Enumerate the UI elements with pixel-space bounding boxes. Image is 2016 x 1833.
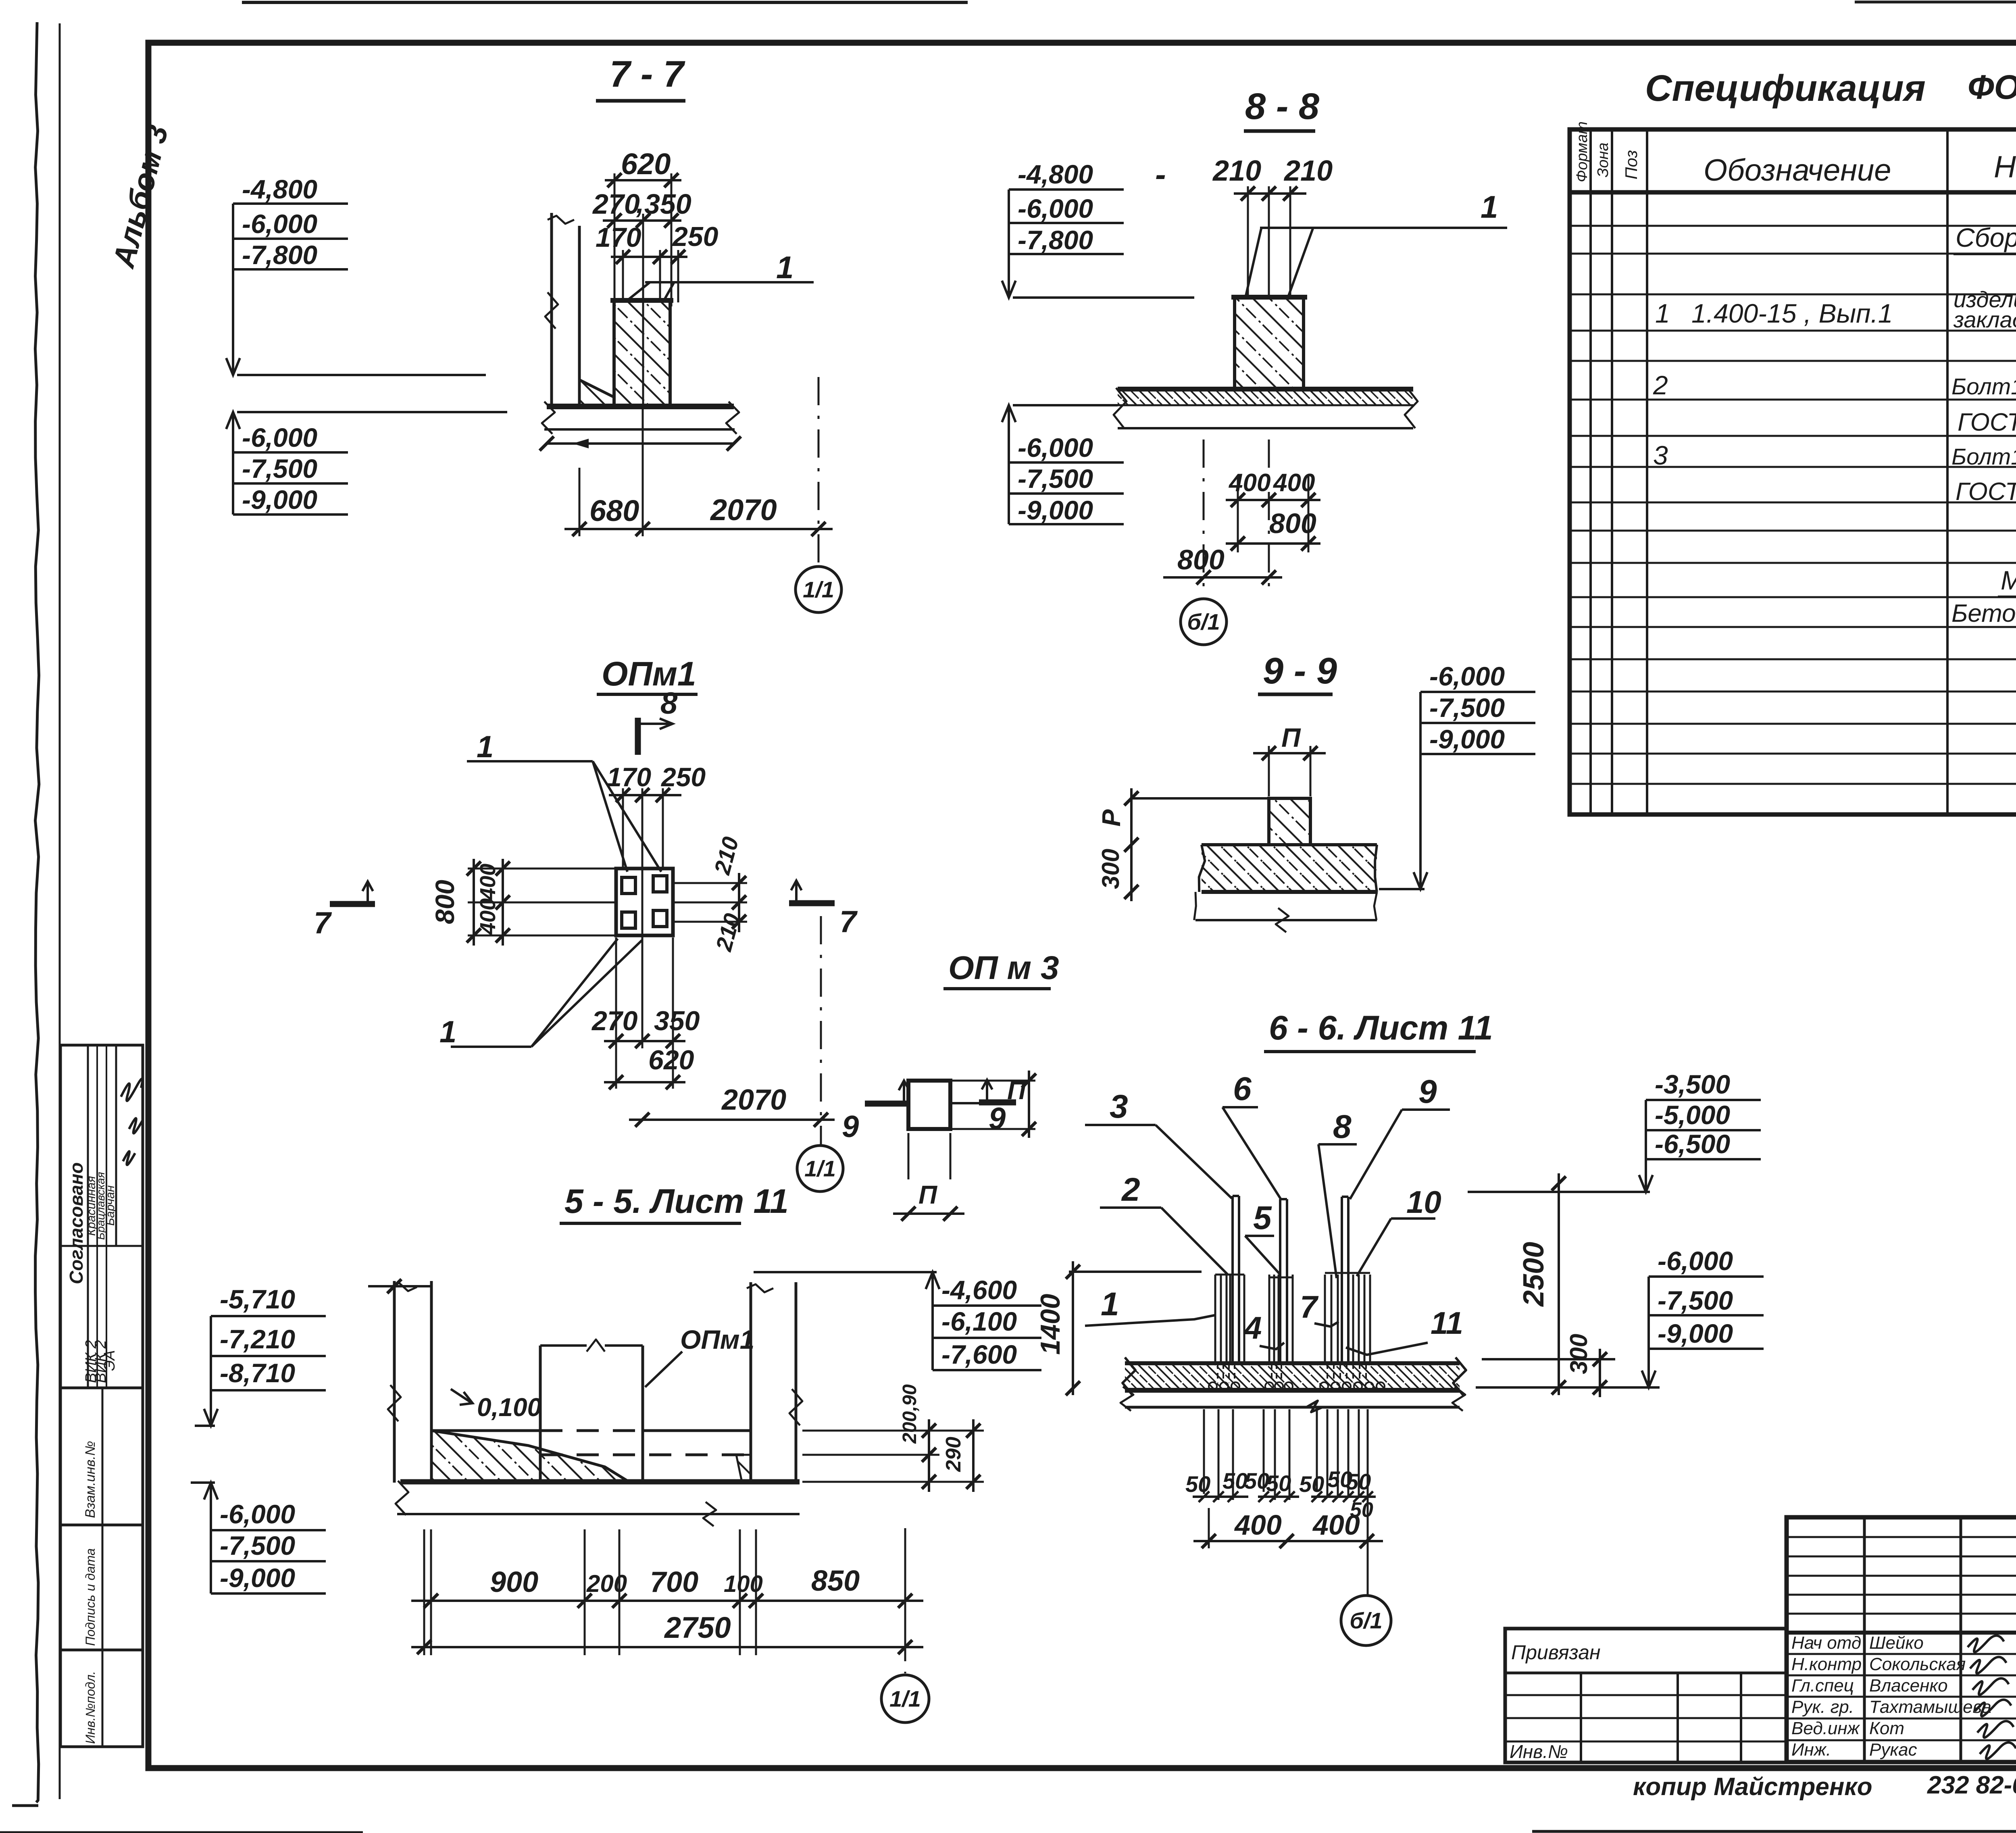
svg-text:Болт1.1м12×500ВСт3пс2: Болт1.1м12×500ВСт3пс2: [1951, 444, 2016, 470]
6-6 dim 1400: [1072, 1261, 1074, 1395]
svg-text:-6,000: -6,000: [1018, 194, 1093, 223]
svg-text:-7,210: -7,210: [220, 1324, 295, 1354]
svg-text:800: 800: [1177, 544, 1225, 575]
stamp: инв № подл: [60, 1650, 143, 1747]
svg-text:Р: Р: [1097, 809, 1126, 827]
OPm3 square: [908, 1081, 950, 1129]
svg-text:-7,500: -7,500: [1018, 464, 1093, 494]
svg-text:-6,100: -6,100: [941, 1306, 1017, 1336]
svg-text:-: -: [1155, 156, 1166, 192]
svg-text:50: 50: [1244, 1468, 1269, 1493]
svg-text:300: 300: [1097, 849, 1124, 889]
spec rows: [1570, 225, 2016, 227]
svg-text:-4,600: -4,600: [941, 1275, 1017, 1305]
svg-text:Сокольская: Сокольская: [1869, 1654, 1966, 1674]
svg-text:270: 270: [591, 1006, 638, 1036]
svg-text:400: 400: [1228, 469, 1270, 497]
svg-text:Сборочные единицы: Сборочные единицы: [1956, 223, 2016, 252]
svg-text:250: 250: [672, 221, 719, 252]
svg-text:850: 850: [811, 1565, 860, 1597]
svg-text:1/1: 1/1: [804, 1156, 836, 1181]
svg-text:7: 7: [839, 905, 858, 939]
svg-text:620: 620: [621, 147, 671, 181]
5-5 right ext dims: [802, 1430, 984, 1432]
svg-text:б/1: б/1: [1187, 609, 1220, 635]
svg-text:8: 8: [660, 686, 678, 721]
svg-text:-9,000: -9,000: [1429, 724, 1505, 754]
title block frame: [1787, 1517, 2016, 1762]
6-6 short pile bundles: [1214, 1275, 1216, 1363]
svg-text:9: 9: [842, 1110, 859, 1144]
svg-text:Инв.№подл.: Инв.№подл.: [83, 1671, 98, 1744]
title block upper grid: [1787, 1536, 2016, 1538]
5-5 hatched wedge: [431, 1431, 629, 1482]
svg-text:ОП м 3: ОП м 3: [948, 950, 1059, 986]
9-9 under line: [1195, 919, 1377, 921]
9-9 pedestal: [1269, 798, 1310, 845]
6-6 slab: [1125, 1361, 1460, 1365]
svg-text:232 82-01 25: 232 82-01 25: [1927, 1771, 2016, 1799]
5-5 right wall: [750, 1282, 752, 1482]
svg-text:Вед.инж: Вед.инж: [1791, 1718, 1860, 1738]
dim 800 / 400 400 left: [473, 859, 475, 946]
svg-text:-7,800: -7,800: [1018, 225, 1093, 255]
svg-text:-4,800: -4,800: [242, 174, 317, 204]
svg-text:290: 290: [942, 1437, 965, 1472]
svg-text:-6,000: -6,000: [1018, 433, 1093, 462]
svg-text:170: 170: [596, 222, 641, 253]
svg-text:Инж.: Инж.: [1791, 1740, 1831, 1760]
5-5 bottom dims: [430, 1529, 432, 1655]
svg-text:ОПм1: ОПм1: [680, 1325, 754, 1354]
svg-text:270: 270: [592, 188, 640, 220]
6-6 dim 2500: [1558, 1173, 1560, 1395]
svg-text:-7,800: -7,800: [242, 240, 317, 270]
svg-text:-6,500: -6,500: [1655, 1129, 1730, 1159]
svg-text:Болт1.1м16×100ВСт3пс2: Болт1.1м16×100ВСт3пс2: [1951, 374, 2016, 400]
svg-text:50: 50: [1223, 1468, 1248, 1493]
svg-text:9 - 9: 9 - 9: [1263, 650, 1337, 692]
svg-text:Спецификация: Спецификация: [1645, 68, 1926, 109]
svg-text:Бетон класса В15: Бетон класса В15: [1951, 600, 2016, 627]
svg-text:Согласовано: Согласовано: [66, 1162, 87, 1284]
svg-text:250: 250: [660, 762, 706, 792]
svg-text:Инв.№: Инв.№: [1510, 1741, 1568, 1762]
8-8 column: [1235, 297, 1304, 389]
svg-text:1/1: 1/1: [889, 1686, 921, 1712]
svg-text:-9,000: -9,000: [242, 485, 317, 514]
svg-text:-6,000: -6,000: [1429, 661, 1505, 691]
svg-text:-7,500: -7,500: [242, 454, 317, 483]
svg-text:Рукас: Рукас: [1869, 1740, 1917, 1760]
5-5 left wall: [393, 1281, 396, 1483]
svg-text:-6,000: -6,000: [242, 209, 317, 239]
6-6 top pile level line: [1069, 1271, 1202, 1273]
svg-text:ОПм1: ОПм1: [602, 655, 696, 693]
svg-text:700: 700: [650, 1566, 698, 1598]
svg-text:-7,500: -7,500: [1429, 693, 1505, 723]
svg-text:Наименование: Наименование: [1994, 150, 2016, 184]
svg-text:1.400-15 , Вып.1: 1.400-15 , Вып.1: [1691, 298, 1893, 328]
svg-text:-9,000: -9,000: [1658, 1319, 1733, 1348]
svg-text:7 - 7: 7 - 7: [610, 54, 685, 95]
svg-text:Кот: Кот: [1869, 1718, 1904, 1738]
9-9 slab: [1202, 843, 1377, 846]
6-6 under strip: [1125, 1406, 1460, 1409]
5-5 floor slab: [400, 1479, 800, 1485]
7-7 screed slope: [579, 380, 614, 397]
svg-text:6 - 6. Лист 11: 6 - 6. Лист 11: [1269, 1009, 1493, 1047]
svg-text:10: 10: [1406, 1184, 1441, 1220]
svg-text:1: 1: [439, 1015, 456, 1049]
stamp: взам.инв: [60, 1388, 143, 1525]
svg-text:Гл.спец: Гл.спец: [1791, 1676, 1854, 1696]
9-9 dim Р / 300: [1131, 797, 1269, 800]
grid line + circle 1/1: [820, 916, 822, 1144]
svg-text:ФОм1 - ФОм3 ,ОПм1, ОПм 3, ОП: ФОм1 - ФОм3 ,ОПм1, ОПм 3, ОП м 4: [1968, 68, 2016, 106]
svg-text:7: 7: [1300, 1289, 1319, 1325]
svg-text:П: П: [1281, 723, 1301, 752]
svg-text:2: 2: [1653, 370, 1668, 400]
svg-text:400: 400: [476, 864, 500, 900]
svg-text:9: 9: [989, 1102, 1006, 1136]
svg-text:50: 50: [1346, 1469, 1371, 1494]
svg-text:6: 6: [1233, 1071, 1252, 1107]
7-7 grid line 1/1: [818, 377, 820, 564]
svg-text:9: 9: [1418, 1073, 1437, 1110]
5-5 right triangle: [736, 1455, 751, 1482]
svg-text:3: 3: [1653, 440, 1668, 470]
svg-text:Обозначение: Обозначение: [1704, 153, 1891, 187]
cut marks 7: [330, 901, 375, 907]
svg-text:210: 210: [1212, 155, 1261, 187]
svg-text:ЭА: ЭА: [101, 1350, 118, 1371]
svg-text:Тахтамышева: Тахтамышева: [1869, 1697, 1991, 1717]
svg-text:8: 8: [1333, 1108, 1352, 1145]
svg-text:0,100: 0,100: [477, 1393, 541, 1422]
8-8 floor slab: [1118, 387, 1413, 392]
svg-text:-6,000: -6,000: [242, 423, 317, 452]
8-8 grid circle: [1181, 599, 1227, 645]
svg-text:копир Майстренко: копир Майстренко: [1633, 1773, 1872, 1801]
6-6 tall piles: [1231, 1196, 1234, 1363]
svg-text:350: 350: [644, 188, 691, 220]
svg-text:-7,500: -7,500: [220, 1531, 295, 1560]
svg-text:б/1: б/1: [1350, 1608, 1382, 1633]
svg-text:4: 4: [1243, 1310, 1262, 1346]
svg-text:680: 680: [589, 494, 639, 527]
paper edge left: [35, 22, 39, 1802]
svg-text:Подпись и дата: Подпись и дата: [83, 1548, 98, 1646]
plan ext lines left: [468, 868, 616, 870]
svg-text:-3,500: -3,500: [1655, 1069, 1730, 1099]
right dim: [950, 1080, 1035, 1082]
svg-text:5 - 5. Лист 11: 5 - 5. Лист 11: [564, 1182, 789, 1220]
svg-text:1: 1: [1101, 1286, 1119, 1323]
margin line: [59, 23, 61, 1799]
6-6 dim 300: [1482, 1358, 1615, 1360]
svg-text:-6,000: -6,000: [220, 1499, 295, 1529]
svg-text:2070: 2070: [721, 1084, 786, 1116]
svg-text:400: 400: [476, 898, 500, 935]
svg-text:1/1: 1/1: [803, 577, 834, 602]
svg-text:1: 1: [1655, 298, 1670, 328]
cut 9 right + П: [950, 1102, 979, 1104]
OPm1 plan square: [616, 869, 673, 935]
spec table frame: [1570, 129, 2016, 814]
svg-text:-4,800: -4,800: [1018, 159, 1093, 189]
plan ext lines right + 210 dims: [673, 882, 747, 884]
svg-text:2: 2: [1121, 1171, 1140, 1208]
svg-text:200,90: 200,90: [899, 1384, 921, 1444]
svg-text:Рук. гр.: Рук. гр.: [1791, 1697, 1854, 1717]
svg-text:Поз: Поз: [1622, 150, 1641, 179]
stamp: подпись и дата: [60, 1525, 143, 1650]
svg-text:400: 400: [1234, 1509, 1282, 1541]
svg-text:Власенко: Власенко: [1869, 1676, 1948, 1696]
svg-text:900: 900: [490, 1566, 538, 1598]
svg-text:1: 1: [477, 730, 494, 764]
svg-text:ГОСТ24379.1-80: ГОСТ24379.1-80: [1956, 478, 2016, 506]
privyazan table: [1505, 1629, 1787, 1762]
5-5 grid circle: [904, 1528, 906, 1673]
svg-text:-5,000: -5,000: [1655, 1100, 1730, 1130]
svg-text:2070: 2070: [710, 493, 777, 527]
svg-text:800: 800: [1269, 508, 1316, 539]
7-7 column ОПм1: [614, 300, 670, 406]
7-7 slab dim line: [547, 442, 734, 445]
svg-text:400: 400: [1312, 1509, 1360, 1541]
6-6 pile tails below: [1203, 1409, 1205, 1494]
svg-text:11: 11: [1431, 1305, 1463, 1341]
svg-text:-5,710: -5,710: [220, 1284, 295, 1314]
svg-text:Формат: Формат: [1574, 121, 1591, 182]
svg-text:300: 300: [1565, 1334, 1592, 1374]
svg-text:-7,500: -7,500: [1658, 1285, 1733, 1315]
svg-text:1: 1: [1481, 189, 1498, 225]
6-6 pile dashes in slab + anchor circles: [1217, 1363, 1218, 1383]
svg-text:2750: 2750: [664, 1611, 731, 1644]
7-7 floor slab: [547, 404, 734, 409]
svg-text:800: 800: [430, 880, 460, 924]
5-5 pedestal dashed: [539, 1346, 542, 1482]
title block staff rows: [1787, 1653, 2016, 1655]
svg-text:7: 7: [314, 906, 332, 940]
svg-text:закладное Мн117-1: закладное Мн117-1: [1953, 307, 2016, 332]
svg-text:620: 620: [648, 1045, 694, 1075]
svg-text:ГОСТ 24379.1-80: ГОСТ 24379.1-80: [1958, 408, 2016, 436]
svg-text:Зона: Зона: [1595, 142, 1612, 177]
svg-text:-6,000: -6,000: [1658, 1246, 1733, 1276]
svg-text:8 - 8: 8 - 8: [1245, 86, 1320, 127]
svg-text:-9,000: -9,000: [1018, 495, 1093, 525]
svg-text:Нач отд: Нач отд: [1791, 1633, 1861, 1653]
svg-text:Взам.инв.№: Взам.инв.№: [83, 1441, 98, 1518]
svg-text:2500: 2500: [1518, 1242, 1550, 1307]
svg-text:Материалы: Материалы: [2001, 565, 2016, 595]
cut mark 8 (top): [635, 718, 641, 755]
5-5 floor top + dashes: [431, 1429, 540, 1432]
svg-text:210: 210: [1283, 155, 1333, 187]
svg-text:100: 100: [724, 1571, 763, 1597]
bottom П dim: [908, 1133, 910, 1179]
svg-text:-7,600: -7,600: [941, 1339, 1017, 1369]
8-8 center/grid lines: [1203, 440, 1205, 589]
svg-text:350: 350: [654, 1006, 700, 1036]
6-6 grid circle: [1341, 1596, 1391, 1646]
svg-text:Н.контр: Н.контр: [1791, 1654, 1862, 1674]
svg-text:1: 1: [776, 250, 793, 285]
svg-text:-8,710: -8,710: [220, 1358, 295, 1388]
approval stamp column: [60, 1045, 143, 1388]
svg-text:5: 5: [1253, 1200, 1272, 1236]
svg-text:Барчан: Барчан: [104, 1185, 117, 1226]
svg-text:Шейко: Шейко: [1869, 1633, 1924, 1653]
svg-text:3: 3: [1110, 1088, 1128, 1125]
7-7 wall: [550, 213, 553, 406]
svg-text:П: П: [918, 1180, 938, 1209]
svg-text:1400: 1400: [1035, 1294, 1066, 1355]
signatures: [1968, 1635, 2004, 1652]
svg-text:Привязан: Привязан: [1511, 1641, 1601, 1664]
scan edge artifacts: [242, 1, 968, 4]
svg-text:-9,000: -9,000: [220, 1563, 295, 1593]
svg-text:200: 200: [586, 1570, 627, 1597]
